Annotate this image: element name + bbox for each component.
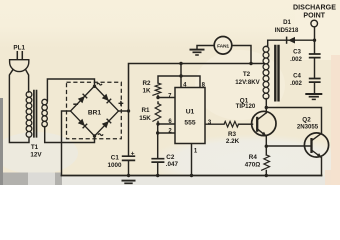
svg-text:C1: C1 — [111, 154, 120, 161]
svg-text:1000: 1000 — [107, 162, 122, 169]
svg-text:PL1: PL1 — [13, 44, 25, 51]
svg-text:12V:8KV: 12V:8KV — [235, 79, 260, 86]
svg-text:R2: R2 — [142, 80, 151, 87]
svg-text:555: 555 — [184, 120, 195, 127]
svg-text:R1: R1 — [141, 107, 150, 114]
svg-text:2.2K: 2.2K — [226, 138, 240, 145]
svg-text:R3: R3 — [228, 131, 237, 138]
svg-text:T1: T1 — [31, 144, 39, 151]
svg-text:U1: U1 — [186, 109, 195, 116]
svg-text:TIP120: TIP120 — [236, 103, 256, 110]
svg-text:D1: D1 — [283, 19, 291, 26]
svg-text:C4: C4 — [293, 72, 301, 79]
svg-text:.002: .002 — [290, 56, 302, 63]
svg-text:15K: 15K — [139, 115, 151, 122]
svg-text:.047: .047 — [166, 161, 179, 168]
svg-text:Q2: Q2 — [302, 116, 311, 123]
svg-text:C3: C3 — [293, 49, 301, 56]
svg-text:12V: 12V — [30, 152, 42, 159]
svg-text:.002: .002 — [290, 80, 302, 87]
svg-text:T2: T2 — [243, 71, 251, 78]
svg-text:POINT: POINT — [303, 11, 325, 19]
svg-text:R4: R4 — [249, 154, 258, 161]
svg-text:FAN1: FAN1 — [217, 43, 229, 49]
svg-text:IND5218: IND5218 — [275, 28, 299, 34]
svg-text:BR1: BR1 — [88, 109, 102, 116]
svg-text:470Ω: 470Ω — [245, 161, 261, 168]
svg-text:+: + — [131, 151, 135, 158]
svg-text:1K: 1K — [142, 87, 151, 94]
svg-text:2N3055: 2N3055 — [297, 124, 319, 131]
